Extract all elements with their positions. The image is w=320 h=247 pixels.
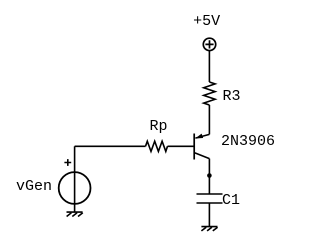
svg-text:+5V: +5V: [193, 13, 220, 30]
wire power to R3: [208, 51, 210, 82]
power terminal +5V symbol: [203, 38, 215, 50]
wire base to transistor (left horizontal): [75, 145, 146, 147]
svg-text:vGen: vGen: [16, 178, 52, 195]
resistor Rp: [146, 141, 168, 151]
svg-text:2N3906: 2N3906: [221, 133, 275, 150]
plus polarity mark of vGen: [64, 159, 71, 166]
wire collector to capacitor: [208, 159, 210, 194]
wire capacitor to ground: [208, 203, 210, 227]
wire R3 to emitter: [208, 105, 210, 134]
ground below C1: [201, 227, 217, 231]
wire vGen vertical: [74, 146, 76, 212]
source vGen circle: [59, 172, 91, 204]
capacitor C1: [197, 194, 223, 203]
junction dot: [207, 173, 212, 178]
transistor Q1 collector lead: [195, 153, 210, 159]
wire Rp to base: [168, 145, 194, 147]
svg-text:R3: R3: [223, 88, 241, 105]
ground below vGen: [67, 212, 83, 216]
svg-text:C1: C1: [222, 192, 240, 209]
resistor R3: [204, 82, 215, 105]
svg-text:Rp: Rp: [150, 118, 168, 135]
transistor Q1 emitter arrow: [195, 134, 203, 139]
transistor Q1 2N3906 emitter lead: [195, 134, 209, 138]
transistor Q1 base bar: [193, 134, 195, 160]
